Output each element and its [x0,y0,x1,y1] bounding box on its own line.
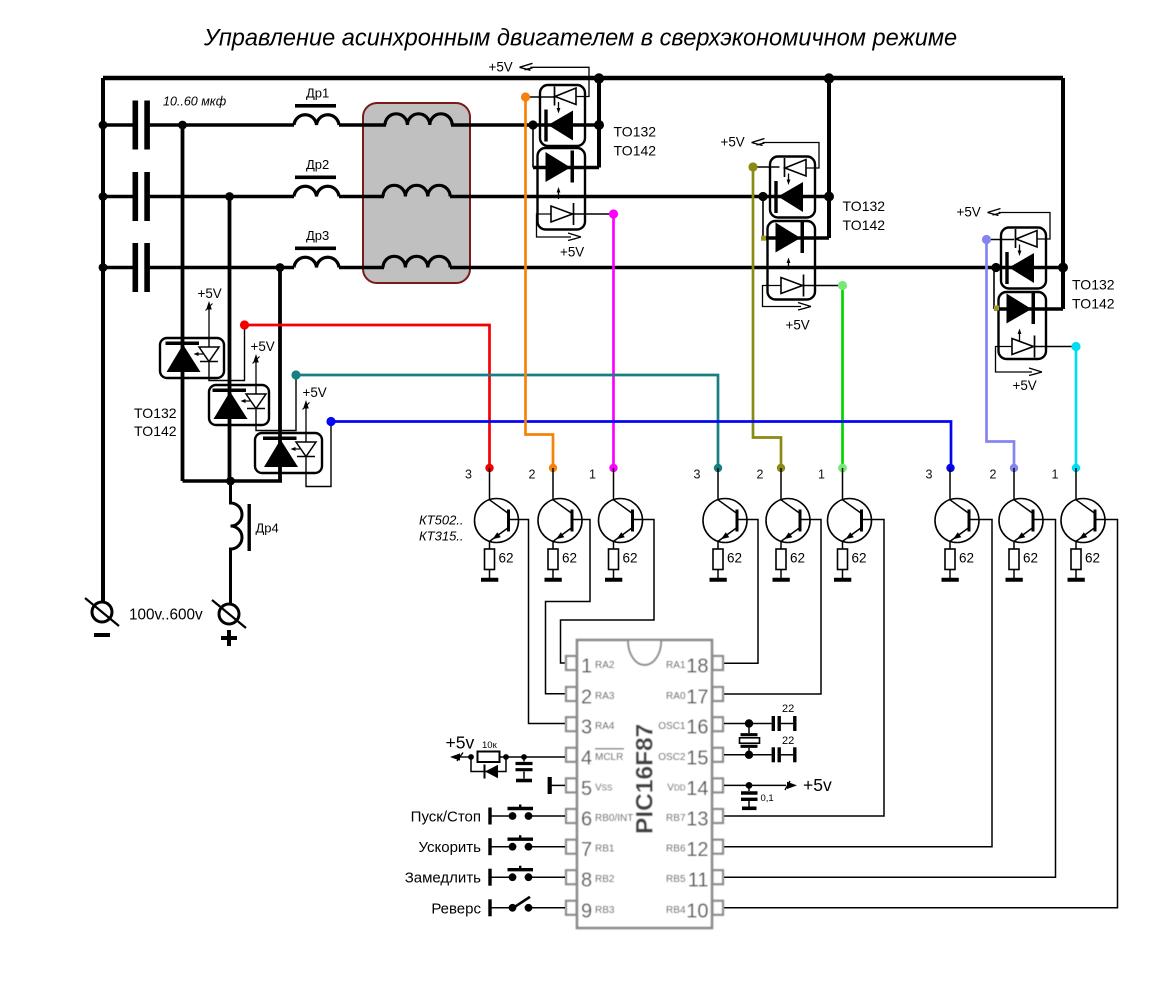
svg-text:62: 62 [790,551,805,566]
pin 17 RA0 [666,687,723,709]
node blue end [946,464,954,472]
svg-text:RB3: RB3 [595,905,615,916]
node cyan start [1071,342,1080,351]
svg-text:5: 5 [581,778,592,800]
op-amp/IC U7 PIC16F87 body [577,640,712,928]
switch SB4 (Реверс) [431,897,565,918]
node teal start [291,370,300,379]
capacitor C5 22pF [773,703,795,731]
svg-text:TO132: TO132 [134,405,177,421]
ground at Q8 emitter resistor [1006,578,1023,582]
pin 2 RA3 [566,687,615,709]
inductor Др3 [294,228,339,268]
junction U2 bus row2 [824,192,834,202]
node orange start [521,92,530,101]
wire Q7 base to pin 12 RB6 [724,520,992,847]
junction U1 bus row1 [594,120,604,130]
svg-text:22: 22 [782,703,794,715]
optotriac module U4 TO132/TO142 [160,338,224,378]
optotriac module U1 (orange phase) TO132/TO142 [533,78,599,230]
capacitor C3 plates [133,243,150,292]
wire row2 Dr2 to motor [339,195,383,199]
wire phase3 drop to U6 [278,268,282,482]
svg-text:КТ315..: КТ315.. [419,529,464,544]
wire R1 to pin 4 MCLR [500,756,566,758]
svg-text:OSC1: OSC1 [658,721,686,732]
svg-text:18: 18 [686,656,708,678]
motor winding block [363,103,470,283]
node green start [838,281,847,290]
junction [99,263,108,272]
junction U1 bus top [594,73,604,83]
svg-text:RB5: RB5 [666,874,686,885]
node teal end [714,464,722,472]
wire U2 output LED to node 2-1 [804,285,839,287]
svg-text:4: 4 [581,747,592,769]
resistor 62 Ohm at Q8 emitter [1009,541,1038,578]
node red start [240,320,249,329]
node magenta start [609,209,618,218]
+5V return of U2 output LED [763,286,812,333]
wire blue phase3-3 [331,422,951,469]
+5V return of U1 output LED [537,214,585,260]
label TO132 TO142 of U2 [843,198,886,233]
ground at Q1 emitter resistor [481,578,498,582]
transistor Q1 (КТ502/КТ315), column 3 [475,468,519,543]
junction U2 left [758,192,767,201]
svg-text:Замедлить: Замедлить [405,870,481,887]
wire Q1 base to pin 3 RA4 [509,520,566,724]
transistor Q3 (КТ502/КТ315), column 1 [599,468,643,543]
capacitor C2 plates [133,172,150,221]
svg-text:+5v: +5v [803,775,832,795]
svg-text:Др3: Др3 [306,228,329,243]
svg-text:КТ502..: КТ502.. [419,513,464,528]
node green end [838,464,847,473]
ground at Q5 emitter resistor [773,578,790,582]
transistor Q5 (КТ502/КТ315), column 2 [766,468,810,543]
transistor Q6 (КТ502/КТ315), column 1 [828,468,872,543]
node U3 lower-left (olive mark) [994,306,999,311]
terminal minus [85,598,119,637]
wire row1 C1 to Dr1 [150,123,294,127]
svg-text:RB7: RB7 [666,813,686,824]
wire phase1 drop to U4 [181,125,185,481]
capacitor C1 plates [133,101,150,150]
svg-text:TO142: TO142 [134,423,177,439]
pin 1 RA2 [566,656,615,678]
+5V feed of U6 input LED [303,385,327,433]
svg-text:Др1: Др1 [306,86,329,101]
ground at Q6 emitter resistor [834,578,851,582]
capacitor C4 at MCLR [516,757,533,779]
wire Q8 base to pin 11 RB5 [724,520,1056,878]
junction Vdd [746,782,753,789]
svg-text:Реверс: Реверс [431,900,481,917]
wire row2 inside motor block left [362,195,384,199]
wire periwinkle phase3-2 [987,240,1015,469]
wire U3 LED cathode lead [985,239,1015,241]
ground at Q3 emitter resistor [605,578,622,582]
ground at pin 5 Vss [550,777,565,794]
pin 15 OSC2 [658,747,723,769]
svg-text:62: 62 [852,551,867,566]
svg-text:7: 7 [581,839,592,861]
svg-text:62: 62 [499,551,514,566]
wire row1 Dr1 to motor [339,123,385,127]
svg-text:9: 9 [581,900,592,922]
pin 6 RB0/INT [566,809,633,831]
svg-text:+5V: +5V [303,385,327,400]
wire U1 LED cathode lead [526,96,555,98]
pin 4 MCLR [566,747,624,769]
svg-text:VSS: VSS [595,782,612,793]
optotriac module U2 (olive phase) TO132/TO142 [763,78,829,300]
wire Q4 base to pin 18 RA1 [724,520,758,664]
wire pin 15 OSC2 to C6 [724,754,772,756]
wire left bus to minus terminal [101,78,105,602]
node orange end [549,464,557,472]
svg-text:6: 6 [581,809,592,831]
capacitor C7 0,1 [741,785,774,806]
svg-text:3: 3 [694,468,701,482]
junction [178,121,187,130]
ground below C4 [516,779,532,783]
junction [276,263,285,272]
svg-text:2: 2 [529,468,536,482]
svg-text:TO142: TO142 [614,143,657,159]
svg-text:2: 2 [581,687,592,709]
svg-text:+5V: +5V [251,339,275,354]
svg-text:+5V: +5V [1013,378,1037,393]
resistor 62 Ohm at Q3 emitter [609,541,638,578]
junction MCLR a [468,754,474,760]
junction MCLR b [503,754,509,760]
switch SB1 (Пуск/Стоп) [411,805,565,826]
label TO132 TO142 of U1 [614,124,657,159]
+5V feed of U3 input LED [957,205,1051,240]
svg-text:+5V: +5V [489,59,513,74]
optotriac module U3 (periwinkle phase) TO132/TO142 [994,78,1063,359]
pin 11 RB5 [666,870,723,892]
pin 12 RB6 [666,839,723,861]
+5V feed of U4 input LED [198,286,222,338]
junction OSC2 [745,751,753,759]
svg-text:TO132: TO132 [1072,277,1115,293]
wire pin 16 OSC1 to C5 [724,723,772,725]
power +5v arrow at Vdd [785,775,832,795]
label TO132 TO142 of U3 [1072,277,1115,312]
wire row1 inside motor block left [362,123,386,127]
svg-text:MCLR: MCLR [595,752,623,763]
svg-text:RB4: RB4 [666,905,686,916]
wire U2 LED cathode lead [753,166,780,168]
ground at Q4 emitter resistor [710,578,727,582]
crystal ZQ1 [740,724,760,755]
svg-text:OSC2: OSC2 [658,752,686,763]
svg-text:10: 10 [686,900,708,922]
+5V feed of U5 input LED [251,339,275,385]
svg-text:62: 62 [1085,551,1100,566]
wire row3 Dr3 to motor [339,266,383,270]
junction [99,192,108,201]
svg-text:RB2: RB2 [595,874,615,885]
node periwinkle start [982,235,991,244]
svg-text:PIC16F87: PIC16F87 [632,724,659,834]
transistor Q8 (КТ502/КТ315), column 2 [999,468,1043,543]
pin 7 RB1 [566,839,615,861]
pin 9 RB3 [566,900,615,922]
resistor 62 Ohm at Q2 emitter [548,541,577,578]
optotriac module U5 TO132/TO142 [209,385,269,425]
wire Q2 base to pin 2 RA3 [546,520,591,694]
wire top +DC bus [103,76,1063,80]
node blue start [326,417,335,426]
diode VD1 across R1 [471,757,506,779]
svg-text:TO132: TO132 [614,124,657,140]
junction MCLR c [521,754,527,760]
junction OSC1 [745,719,753,727]
wire olive phase2-2 [753,167,781,468]
svg-text:1: 1 [581,656,592,678]
junction U3 left [991,263,1000,272]
svg-text:Ускорить: Ускорить [418,839,481,856]
svg-text:Др2: Др2 [306,157,329,172]
wire teal phase2-3 [296,375,718,468]
wire U1 output LED to node 1-1 [574,213,610,215]
svg-text:15: 15 [686,747,708,769]
svg-text:RA4: RA4 [595,721,615,732]
switch SB3 (Замедлить) [405,866,565,887]
svg-text:Др4: Др4 [256,521,279,536]
pin 10 RB4 [666,900,723,922]
node red end [485,464,493,472]
inductor Др1 [294,86,339,126]
wire row2 motor to U2 [451,195,829,199]
resistor 62 Ohm at Q9 emitter [1071,541,1100,578]
wire row3 inside motor block left [362,266,384,270]
wire Q3 base to pin 1 RA2 [561,520,655,664]
svg-text:+5V: +5V [560,245,584,260]
wire pin 14 Vdd to +5v [724,784,786,786]
wire Q5 base to pin 17 RA0 [724,520,821,695]
pin 14 Vdd [667,778,723,800]
svg-text:0,1: 0,1 [761,793,774,804]
pin 8 RB2 [566,870,615,892]
node olive end [777,464,785,472]
svg-text:62: 62 [562,551,577,566]
svg-text:TO142: TO142 [843,217,886,233]
svg-text:14: 14 [686,778,708,800]
wire row1 inside motor block right [451,123,471,127]
svg-text:RA1: RA1 [666,660,686,671]
svg-text:2: 2 [757,468,764,482]
svg-text:62: 62 [623,551,638,566]
wire green phase2-1 [841,286,844,469]
svg-text:12: 12 [686,839,708,861]
svg-text:17: 17 [686,687,708,709]
wire C3 left lead [103,266,133,270]
optotriac module U6 TO132/TO142 [255,433,322,473]
label TO132 TO142 of U4-U6 [134,405,177,439]
svg-text:+5V: +5V [957,205,981,220]
svg-text:3: 3 [581,717,592,739]
resistor 62 Ohm at Q6 emitter [838,541,867,578]
+5V feed of U2 input LED [721,135,820,169]
svg-text:+5V: +5V [721,135,745,150]
svg-text:62: 62 [727,551,742,566]
pin 16 OSC1 [658,717,723,739]
node olive start [748,162,757,171]
junction [225,192,234,201]
wire U5 LED return to node [256,375,296,431]
svg-text:RA3: RA3 [595,691,615,702]
wire row3 C3 to Dr3 [150,266,294,270]
node cyan end [1072,464,1080,472]
wire magenta phase1-1 [612,214,615,468]
+5V return of U3 output LED [996,347,1043,394]
pin 13 RB7 [666,809,723,831]
wire U3 output LED to node 3-1 [1035,346,1073,348]
svg-text:+5V: +5V [786,318,810,333]
svg-text:62: 62 [1023,551,1038,566]
svg-text:TO132: TO132 [843,198,886,214]
transistor Q4 (КТ502/КТ315), column 3 [703,468,747,543]
wire row3 inside motor block right [450,266,471,270]
svg-text:Пуск/Стоп: Пуск/Стоп [411,809,481,826]
wire row2 inside motor block right [450,195,471,199]
capacitor C6 22pF [773,735,795,762]
resistor 62 Ohm at Q5 emitter [776,541,805,578]
pin 5 Vss [566,778,612,800]
svg-text:RA0: RA0 [666,691,686,702]
inductor Др4 [231,481,279,604]
wire Q9 base to pin 10 RB4 [724,520,1118,908]
ground at Q2 emitter resistor [545,578,562,582]
wire cyan phase3-1 [1075,347,1078,469]
transistor Q9 (КТ502/КТ315), column 1 [1061,468,1105,543]
svg-text:3: 3 [926,468,933,482]
pin 18 RA1 [666,656,723,678]
svg-text:16: 16 [686,717,708,739]
terminal plus [212,600,246,646]
svg-text:+5V: +5V [198,286,222,301]
label КТ502.. КТ315.. [419,513,464,544]
junction [226,477,235,486]
svg-text:62: 62 [959,551,974,566]
resistor R1 10k [478,740,500,762]
svg-text:8: 8 [581,870,592,892]
svg-text:2: 2 [990,468,997,482]
wire C1 left lead [103,123,133,127]
ground at Q9 emitter resistor [1068,578,1085,582]
svg-text:10к: 10к [482,740,498,751]
wire orange phase1-2 [526,97,554,468]
svg-text:+5v: +5v [446,733,475,753]
wire C2 left lead [103,195,133,199]
inductor Др2 [294,157,339,197]
svg-text:1: 1 [589,468,596,482]
wire U4 LED return to node [209,325,245,381]
svg-text:1: 1 [818,468,825,482]
transistor Q2 (КТ502/КТ315), column 2 [538,468,582,543]
junction U2 bus top [824,73,834,83]
svg-text:11: 11 [688,870,709,892]
svg-text:VDD: VDD [667,782,685,793]
svg-text:RB0/INT: RB0/INT [595,813,633,824]
wire red phase1-3 [245,325,490,468]
svg-text:3: 3 [465,468,472,482]
wire row2 C2 to Dr2 [150,195,294,199]
pin 3 RA4 [566,717,615,739]
svg-text:13: 13 [686,809,708,831]
wire row3 motor to U3 [451,266,1063,270]
resistor 62 Ohm at Q7 emitter [945,541,974,578]
ground at Q7 emitter resistor [942,578,959,582]
junction U1 left [528,120,537,129]
wire Q6 base to pin 13 RB7 [724,520,884,817]
node periwinkle end [1010,464,1018,472]
junction U3 bus row3 [1058,263,1068,273]
svg-text:22: 22 [782,735,794,747]
svg-text:Управление асинхронным двигате: Управление асинхронным двигателем в свер… [203,26,957,52]
junction [99,121,108,130]
svg-text:1: 1 [1052,468,1059,482]
switch SB2 (Ускорить) [418,835,565,856]
svg-text:RA2: RA2 [595,660,615,671]
node U2 lower-left (olive mark) [761,236,766,241]
svg-text:10..60 мкф: 10..60 мкф [163,95,227,109]
node magenta end [609,464,617,472]
wire U6 LED return to node [306,422,331,487]
+5V feed of U1 input LED [489,59,590,96]
svg-text:100v..600v: 100v..600v [129,607,203,624]
wire row1 motor to U1 [452,123,599,127]
ground below C7 [742,806,757,810]
svg-text:TO142: TO142 [1072,296,1115,312]
wire phase2 drop to U5 [228,197,232,482]
svg-text:RB6: RB6 [666,844,686,855]
transistor Q7 (КТ502/КТ315), column 3 [935,468,979,543]
resistor 62 Ohm at Q4 emitter [713,541,742,578]
resistor 62 Ohm at Q1 emitter [485,541,514,578]
wire common bus to Dr4 [183,479,283,483]
svg-text:RB1: RB1 [595,844,615,855]
power +5V arrow at MCLR [450,753,471,762]
